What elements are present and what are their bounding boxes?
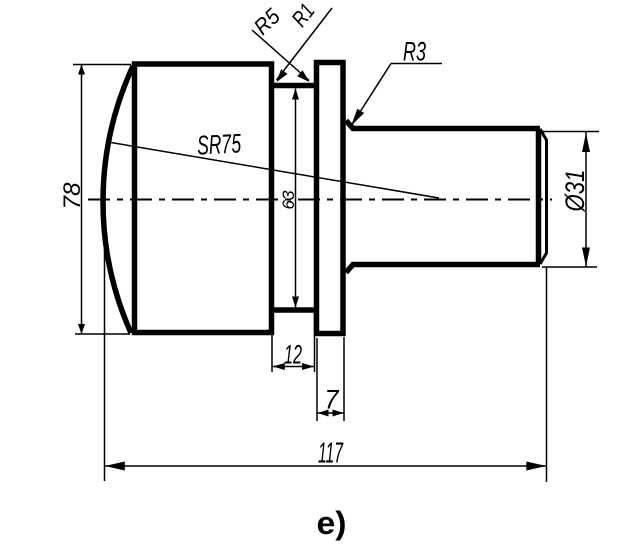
leader for R1 (to left groove corner) xyxy=(277,8,333,80)
svg-text:7: 7 xyxy=(325,385,340,415)
right cylinder top edge xyxy=(346,121,540,129)
svg-text:12: 12 xyxy=(284,340,302,370)
shaft end face line xyxy=(536,131,542,262)
svg-text:e): e) xyxy=(317,505,347,541)
flange body xyxy=(317,63,344,334)
dimension 12 extension lines xyxy=(271,312,273,372)
spherical end arc SR75 xyxy=(103,66,133,333)
shaft end chamfer outline xyxy=(540,129,547,264)
dimension 78 extension lines xyxy=(73,64,131,66)
svg-text:Ø31: Ø31 xyxy=(560,170,590,213)
centerline xyxy=(88,199,552,201)
dimension 117 line xyxy=(105,465,547,467)
leader for R5 (to right groove corner) xyxy=(252,30,309,81)
svg-text:117: 117 xyxy=(318,438,344,470)
R3 leader shelf xyxy=(391,63,442,65)
groove diameter dimension line 63 xyxy=(295,89,297,308)
big cylinder body xyxy=(135,64,272,333)
svg-text:SR75: SR75 xyxy=(196,128,242,160)
R3 leader line xyxy=(351,64,391,127)
dimension 12 line xyxy=(272,366,315,368)
dimension 7 line xyxy=(317,412,344,414)
svg-text:63: 63 xyxy=(279,190,298,210)
dimension 117 extension lines xyxy=(104,206,106,481)
dimension D31 extension lines xyxy=(542,131,599,133)
svg-text:78: 78 xyxy=(59,182,86,210)
groove top edge xyxy=(269,83,318,89)
dimension 78 line xyxy=(81,65,83,335)
right cylinder bottom edge xyxy=(346,265,540,273)
dimension 7 extension lines xyxy=(316,338,318,421)
SR75 radius line xyxy=(108,142,439,198)
groove bottom edge xyxy=(269,307,318,313)
dimension D31 line xyxy=(585,132,587,268)
svg-text:R3: R3 xyxy=(403,37,426,67)
